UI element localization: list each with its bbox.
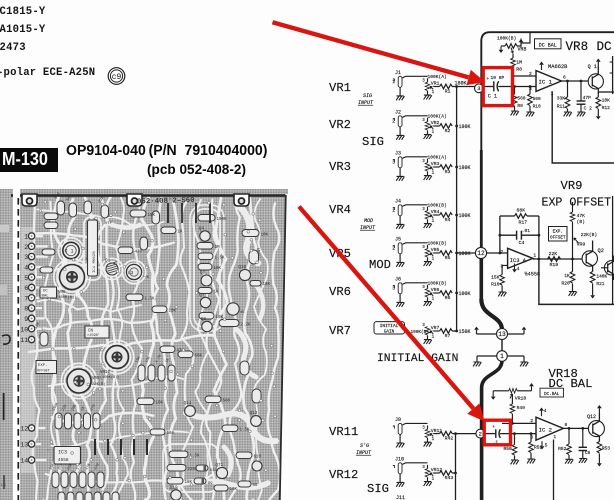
wire: bus to node 3 [452, 86, 475, 88]
red arrow 1 [273, 22, 469, 77]
svg-text:R11: R11 [557, 103, 566, 109]
trimmer VR11 [427, 425, 429, 429]
svg-text:22K: 22K [549, 251, 558, 257]
top-left partial text lines [0, 6, 45, 18]
svg-text:VR2: VR2 [431, 120, 440, 126]
svg-text:10 8P: 10 8P [491, 75, 505, 81]
svg-text:1K: 1K [564, 273, 570, 279]
svg-text:22K(B): 22K(B) [581, 232, 598, 238]
svg-text:VR4: VR4 [329, 203, 351, 217]
resistor R3 [440, 165, 453, 170]
svg-text:3: 3 [529, 86, 532, 92]
resistor 47K (B) [572, 202, 574, 212]
coil L3 [126, 264, 141, 279]
svg-text:1: 1 [553, 434, 556, 440]
svg-text:R49: R49 [517, 405, 526, 411]
potentiometer row VR6 [329, 276, 471, 306]
wire: row7 150K to bus [452, 330, 456, 332]
wire: node13 to node1 [501, 339, 503, 351]
svg-text:R17: R17 [519, 220, 528, 226]
svg-text:1: 1 [533, 253, 536, 259]
svg-text:R8: R8 [516, 67, 522, 73]
trimmer VR7 [425, 327, 430, 335]
svg-text:VR18: VR18 [515, 395, 527, 401]
resistor R49 [510, 396, 511, 399]
potentiometer row VR7 [329, 322, 471, 344]
svg-text:SIG: SIG [362, 135, 384, 149]
capacitor C2 47P [580, 81, 582, 101]
svg-text:47P: 47P [583, 95, 592, 101]
silkscreen box EXP OFFSET [36, 361, 57, 374]
svg-text:VR9: VR9 [561, 179, 583, 193]
bottom right components [169, 451, 188, 458]
svg-text:Q2: Q2 [598, 248, 604, 254]
svg-text:R16: R16 [491, 282, 500, 288]
svg-text:100K(B): 100K(B) [428, 240, 447, 246]
svg-text:1: 1 [432, 171, 435, 175]
svg-text:J3: J3 [395, 150, 401, 156]
svg-text:3: 3 [422, 246, 425, 250]
jumper wires [94, 439, 96, 455]
node 3 [475, 84, 484, 93]
svg-text:DC BAL: DC BAL [549, 377, 593, 391]
boxed label DC BAL (top) [535, 39, 562, 49]
svg-text:VR3: VR3 [329, 160, 351, 174]
svg-text:VR11: VR11 [329, 425, 358, 439]
svg-text:C4: C4 [519, 240, 525, 246]
svg-text:13: 13 [498, 331, 506, 338]
svg-text:2: 2 [529, 71, 532, 77]
wire: Q1 source to right edge [598, 91, 614, 93]
svg-text:R3: R3 [445, 169, 451, 175]
potentiometer row VR3 [329, 150, 471, 180]
svg-text:R6: R6 [445, 295, 451, 301]
svg-text:GAIN: GAIN [384, 330, 395, 335]
svg-text:R50: R50 [504, 446, 513, 452]
pcb edge pads 1-14 [35, 235, 43, 237]
svg-text:R9: R9 [517, 103, 523, 109]
svg-text:VR7: VR7 [329, 324, 351, 338]
svg-text:IC 1: IC 1 [539, 78, 553, 85]
INITIAL GAIN boxed label [374, 322, 405, 334]
svg-text:MOD: MOD [369, 258, 391, 272]
wire: IC2 pin1 down [553, 440, 555, 500]
component IC3 [54, 447, 81, 465]
resistor R8 1M [512, 54, 514, 59]
svg-text:2: 2 [479, 432, 482, 438]
svg-text:1: 1 [432, 297, 435, 301]
svg-text:J1: J1 [395, 70, 401, 76]
op-amp IC2 [536, 417, 563, 440]
pcb right edge [280, 194, 289, 500]
svg-text:EXP.: EXP. [553, 230, 563, 235]
component C1 (big cap) [63, 242, 79, 258]
feedback capacitor C4 .01 [499, 234, 502, 237]
svg-text:SIG: SIG [363, 93, 372, 99]
module border: s-curve into node 13 [481, 299, 502, 330]
svg-text:S'G: S'G [360, 443, 369, 449]
svg-text:J6: J6 [395, 276, 401, 282]
svg-text:3: 3 [477, 86, 480, 92]
svg-text:100K: 100K [459, 251, 471, 257]
transistor Q1 [106, 263, 118, 275]
svg-text:INPUT: INPUT [360, 225, 376, 231]
pin 4 arrow [514, 264, 516, 270]
wire: R8 to IC1 pin2 [513, 75, 536, 77]
svg-text:1: 1 [432, 477, 435, 481]
potentiometer row VR2 [329, 109, 471, 139]
svg-text:140K: 140K [596, 274, 607, 280]
wire: IC1 pin1 feedback loop [552, 91, 614, 163]
resistor R6 [440, 291, 453, 296]
pcb top border [11, 194, 287, 197]
svg-text:VR1: VR1 [431, 81, 440, 87]
component VR9 trimmer [67, 369, 91, 393]
bottom edge cut components [58, 492, 65, 500]
svg-text:C8: C8 [585, 450, 591, 456]
svg-text:VR12: VR12 [329, 468, 358, 482]
trimmer VR3 [427, 159, 429, 163]
svg-text:R20: R20 [562, 280, 571, 286]
svg-text:12: 12 [477, 250, 485, 257]
resistor R42 [440, 431, 453, 436]
transistor Q3 (cut) [604, 261, 614, 275]
svg-text:J2: J2 [395, 109, 401, 115]
svg-text:VR3: VR3 [431, 161, 440, 167]
op-amp IC3A [508, 248, 533, 268]
svg-text:½4558: ½4558 [525, 272, 541, 278]
wire: output down to bottom rail [539, 259, 614, 304]
svg-text:560: 560 [533, 96, 541, 102]
svg-text:33K: 33K [557, 96, 566, 102]
misc upper components [44, 213, 58, 220]
svg-text:2: 2 [530, 418, 533, 424]
svg-text:+: + [486, 77, 489, 82]
svg-text:C 1: C 1 [488, 94, 497, 100]
potentiometer row VR5 [329, 236, 471, 266]
svg-text:VR5: VR5 [431, 247, 440, 253]
resistor R5 [440, 251, 453, 256]
svg-text:100K(B): 100K(B) [497, 36, 516, 42]
vertical resistor cluster mid-right [138, 365, 145, 381]
svg-text:J5: J5 [395, 236, 401, 242]
svg-text:180K: 180K [459, 165, 471, 171]
right edge vertical [612, 196, 614, 304]
svg-text:3: 3 [530, 434, 533, 440]
copper pour channels [238, 205, 258, 263]
svg-text:VR9: VR9 [577, 242, 586, 248]
svg-text:3: 3 [422, 208, 425, 212]
resistor R19 22K [548, 257, 561, 262]
svg-text:R52: R52 [558, 446, 567, 452]
svg-text:R42: R42 [445, 435, 454, 441]
svg-text:2: 2 [500, 249, 503, 255]
pcb photo: gray field [0, 189, 13, 500]
extra small pads [58, 415, 61, 418]
node 12 [475, 247, 486, 258]
trimmer VR5 [427, 245, 429, 249]
svg-text:MOD: MOD [364, 218, 373, 224]
wire: IC1 output to Q1 [561, 80, 588, 82]
svg-text:1: 1 [432, 438, 435, 442]
svg-text:DC: DC [597, 40, 613, 54]
resistor R20 1K [572, 259, 574, 272]
resistor R10 560 [529, 85, 532, 88]
wire: lower SIG bus [455, 434, 457, 500]
capacitor (node2 coupling) [485, 433, 496, 435]
wire: SIG/MOD summing bus [456, 87, 458, 332]
svg-text:(B): (B) [577, 219, 585, 225]
stamp 052-408-2 [137, 197, 195, 207]
partial component at right edge [612, 56, 614, 94]
svg-text:R12: R12 [602, 105, 611, 111]
feedback right vertical [538, 216, 540, 259]
svg-text:560: 560 [517, 95, 525, 101]
svg-text:1: 1 [432, 335, 435, 339]
dashed cut line [17, 198, 19, 500]
component VR10 trimmer [106, 346, 129, 369]
svg-text:VR8: VR8 [518, 47, 527, 53]
pcb traces [31, 197, 39, 500]
svg-text:100K(A): 100K(A) [428, 113, 447, 119]
trimmer VR4 [427, 207, 429, 211]
resistor R21 140K [590, 272, 595, 284]
svg-text:3: 3 [422, 324, 425, 328]
PCB photograph (approximated) [0, 189, 288, 500]
red callout rectangle 2 (node 2 cap) [484, 420, 510, 445]
svg-text:3: 3 [422, 79, 425, 83]
svg-text:VR4: VR4 [431, 209, 440, 215]
svg-text:R43: R43 [445, 475, 454, 481]
svg-text:J11: J11 [396, 495, 405, 500]
feedback resistor R7 68K [499, 216, 501, 253]
resistor R50 [513, 432, 516, 435]
svg-text:VR7: VR7 [431, 325, 440, 331]
resistor R12 10K [597, 94, 599, 97]
svg-text:1M: 1M [516, 60, 522, 66]
resistor R51 [530, 432, 533, 435]
svg-text:R1: R1 [445, 88, 451, 94]
svg-text:3: 3 [422, 426, 425, 430]
svg-text:3: 3 [422, 160, 425, 164]
svg-text:.01: .01 [522, 228, 531, 234]
capacitor C8 [582, 428, 584, 447]
resistor R1 [440, 84, 453, 89]
component VR8 trimmer [60, 265, 85, 290]
svg-text:VR2: VR2 [329, 118, 351, 132]
svg-text:R19: R19 [550, 262, 559, 268]
svg-text:INITIAL: INITIAL [380, 324, 399, 329]
trimmer VR9 22K(B) [572, 222, 574, 259]
node 13 [497, 329, 508, 340]
svg-text:R5: R5 [445, 255, 451, 261]
svg-text:1: 1 [432, 257, 435, 261]
svg-text:68K: 68K [517, 208, 526, 214]
node 1 rail with grounds [477, 355, 497, 357]
svg-text:1: 1 [432, 91, 435, 95]
potentiometer row VR1 [329, 70, 467, 100]
svg-text:DC.BAL: DC.BAL [544, 393, 560, 397]
trimmer VR18 [493, 390, 509, 392]
wire: IC2 output to Q12 [563, 427, 588, 429]
wire: IC3A output [533, 258, 582, 260]
resistors right column [198, 215, 215, 222]
svg-text:4: 4 [517, 266, 520, 272]
node 2 [476, 429, 485, 438]
wire: node12 to IC3A [487, 252, 508, 254]
svg-text:R10: R10 [533, 104, 541, 110]
resistor R52 [568, 428, 570, 444]
svg-text:EXP OFFSET: EXP OFFSET [542, 197, 612, 210]
svg-text:100K(A): 100K(A) [428, 154, 447, 160]
potentiometer row VR11 [329, 417, 453, 447]
resistor R4 [440, 213, 453, 218]
svg-text:1: 1 [500, 353, 504, 360]
svg-text:Q12: Q12 [587, 414, 596, 420]
silkscreen box DC BAL [40, 287, 57, 298]
node 1 [497, 351, 508, 362]
svg-text:DC BAL: DC BAL [539, 42, 557, 48]
white strip left of dashed line [13, 189, 20, 500]
module border: s-curve from node1 down [482, 360, 502, 500]
capacitor C1 [483, 86, 493, 88]
svg-text:100K(A): 100K(A) [428, 74, 447, 80]
boxed label DC BAL [540, 388, 564, 397]
svg-text:100K(B): 100K(B) [428, 280, 447, 286]
module border: left edge (bold) [480, 150, 483, 255]
boxed label EXP OFFSET [549, 227, 568, 242]
trimmer VR1 [427, 78, 429, 82]
red callout rectangle 1 (C1) [483, 68, 512, 106]
svg-text:4: 4 [544, 408, 547, 414]
svg-text:INITIAL GAIN: INITIAL GAIN [377, 353, 458, 365]
svg-text:C 2: C 2 [584, 106, 593, 112]
svg-text:R53: R53 [602, 445, 611, 451]
svg-text:R21: R21 [596, 281, 604, 287]
potentiometer row VR12 [329, 456, 453, 486]
svg-text:R7: R7 [445, 333, 451, 339]
svg-text:100K: 100K [459, 213, 471, 219]
pcb board notches [22, 194, 37, 206]
svg-text:1: 1 [432, 219, 435, 223]
svg-text:3: 3 [422, 119, 425, 123]
svg-text:+: + [492, 426, 495, 430]
svg-text:3: 3 [422, 466, 425, 470]
svg-text:IC3 A: IC3 A [510, 258, 527, 264]
svg-text:OFFSET: OFFSET [550, 236, 566, 241]
svg-text:3: 3 [422, 286, 425, 290]
resistor R11 33K [567, 81, 569, 97]
svg-text:MA662B: MA662B [548, 64, 568, 70]
resistor R53 [597, 442, 602, 454]
resistor R9 560 [513, 85, 516, 88]
svg-text:15K: 15K [491, 274, 500, 280]
circled c9 mark [105, 65, 129, 89]
svg-text:J10: J10 [395, 456, 404, 462]
svg-text:6: 6 [563, 74, 566, 80]
node 13 rail with arrows [477, 333, 497, 335]
wire: R49 junction to IC2 pin 2 [502, 422, 536, 424]
svg-text:47K: 47K [577, 213, 586, 219]
resistor R16 15K [502, 265, 508, 274]
wire: bus to node 2 [452, 433, 476, 435]
svg-text:10K: 10K [602, 98, 611, 104]
svg-text:SIG: SIG [367, 482, 389, 496]
trimmer VR2 [427, 118, 429, 122]
potentiometer row VR4 [329, 198, 471, 228]
second vertical row bottom [52, 472, 59, 488]
svg-text:VR6: VR6 [329, 285, 351, 299]
svg-text:VR8: VR8 [566, 40, 589, 54]
svg-text:VR1: VR1 [329, 81, 351, 95]
op-amp IC1 [536, 71, 561, 92]
component IC1 [88, 220, 98, 276]
svg-text:100K(B): 100K(B) [428, 202, 447, 208]
svg-text:100K: 100K [459, 291, 471, 297]
svg-text:R2: R2 [445, 128, 451, 134]
resistor R2 [440, 124, 453, 129]
module border: top edge [481, 32, 614, 150]
wire: bus to node 12 [457, 252, 476, 254]
trimmer VR6 [427, 285, 429, 289]
svg-text:VR6: VR6 [431, 287, 440, 293]
svg-text:180K: 180K [459, 124, 471, 130]
svg-text:INPUT: INPUT [358, 100, 374, 106]
svg-text:6: 6 [565, 422, 568, 428]
svg-text:150K: 150K [459, 329, 471, 335]
svg-text:J4: J4 [395, 198, 401, 204]
svg-text:Q 1: Q 1 [588, 64, 597, 70]
resistor R7 [440, 329, 453, 334]
svg-text:J9: J9 [395, 417, 401, 423]
resistor R43 [440, 471, 453, 476]
svg-text:5: 5 [545, 442, 548, 448]
vertical resistor row mid [55, 413, 62, 429]
margin marks [2, 335, 10, 344]
connector box CN [85, 326, 109, 338]
svg-text:1: 1 [432, 130, 435, 134]
svg-text:INPUT: INPUT [356, 450, 372, 456]
svg-text:R4: R4 [445, 217, 451, 223]
red arrow 2 [299, 207, 473, 409]
trimmer VR12 [427, 465, 429, 469]
M-130 title block [0, 148, 58, 172]
svg-text:IC 2: IC 2 [539, 426, 552, 433]
